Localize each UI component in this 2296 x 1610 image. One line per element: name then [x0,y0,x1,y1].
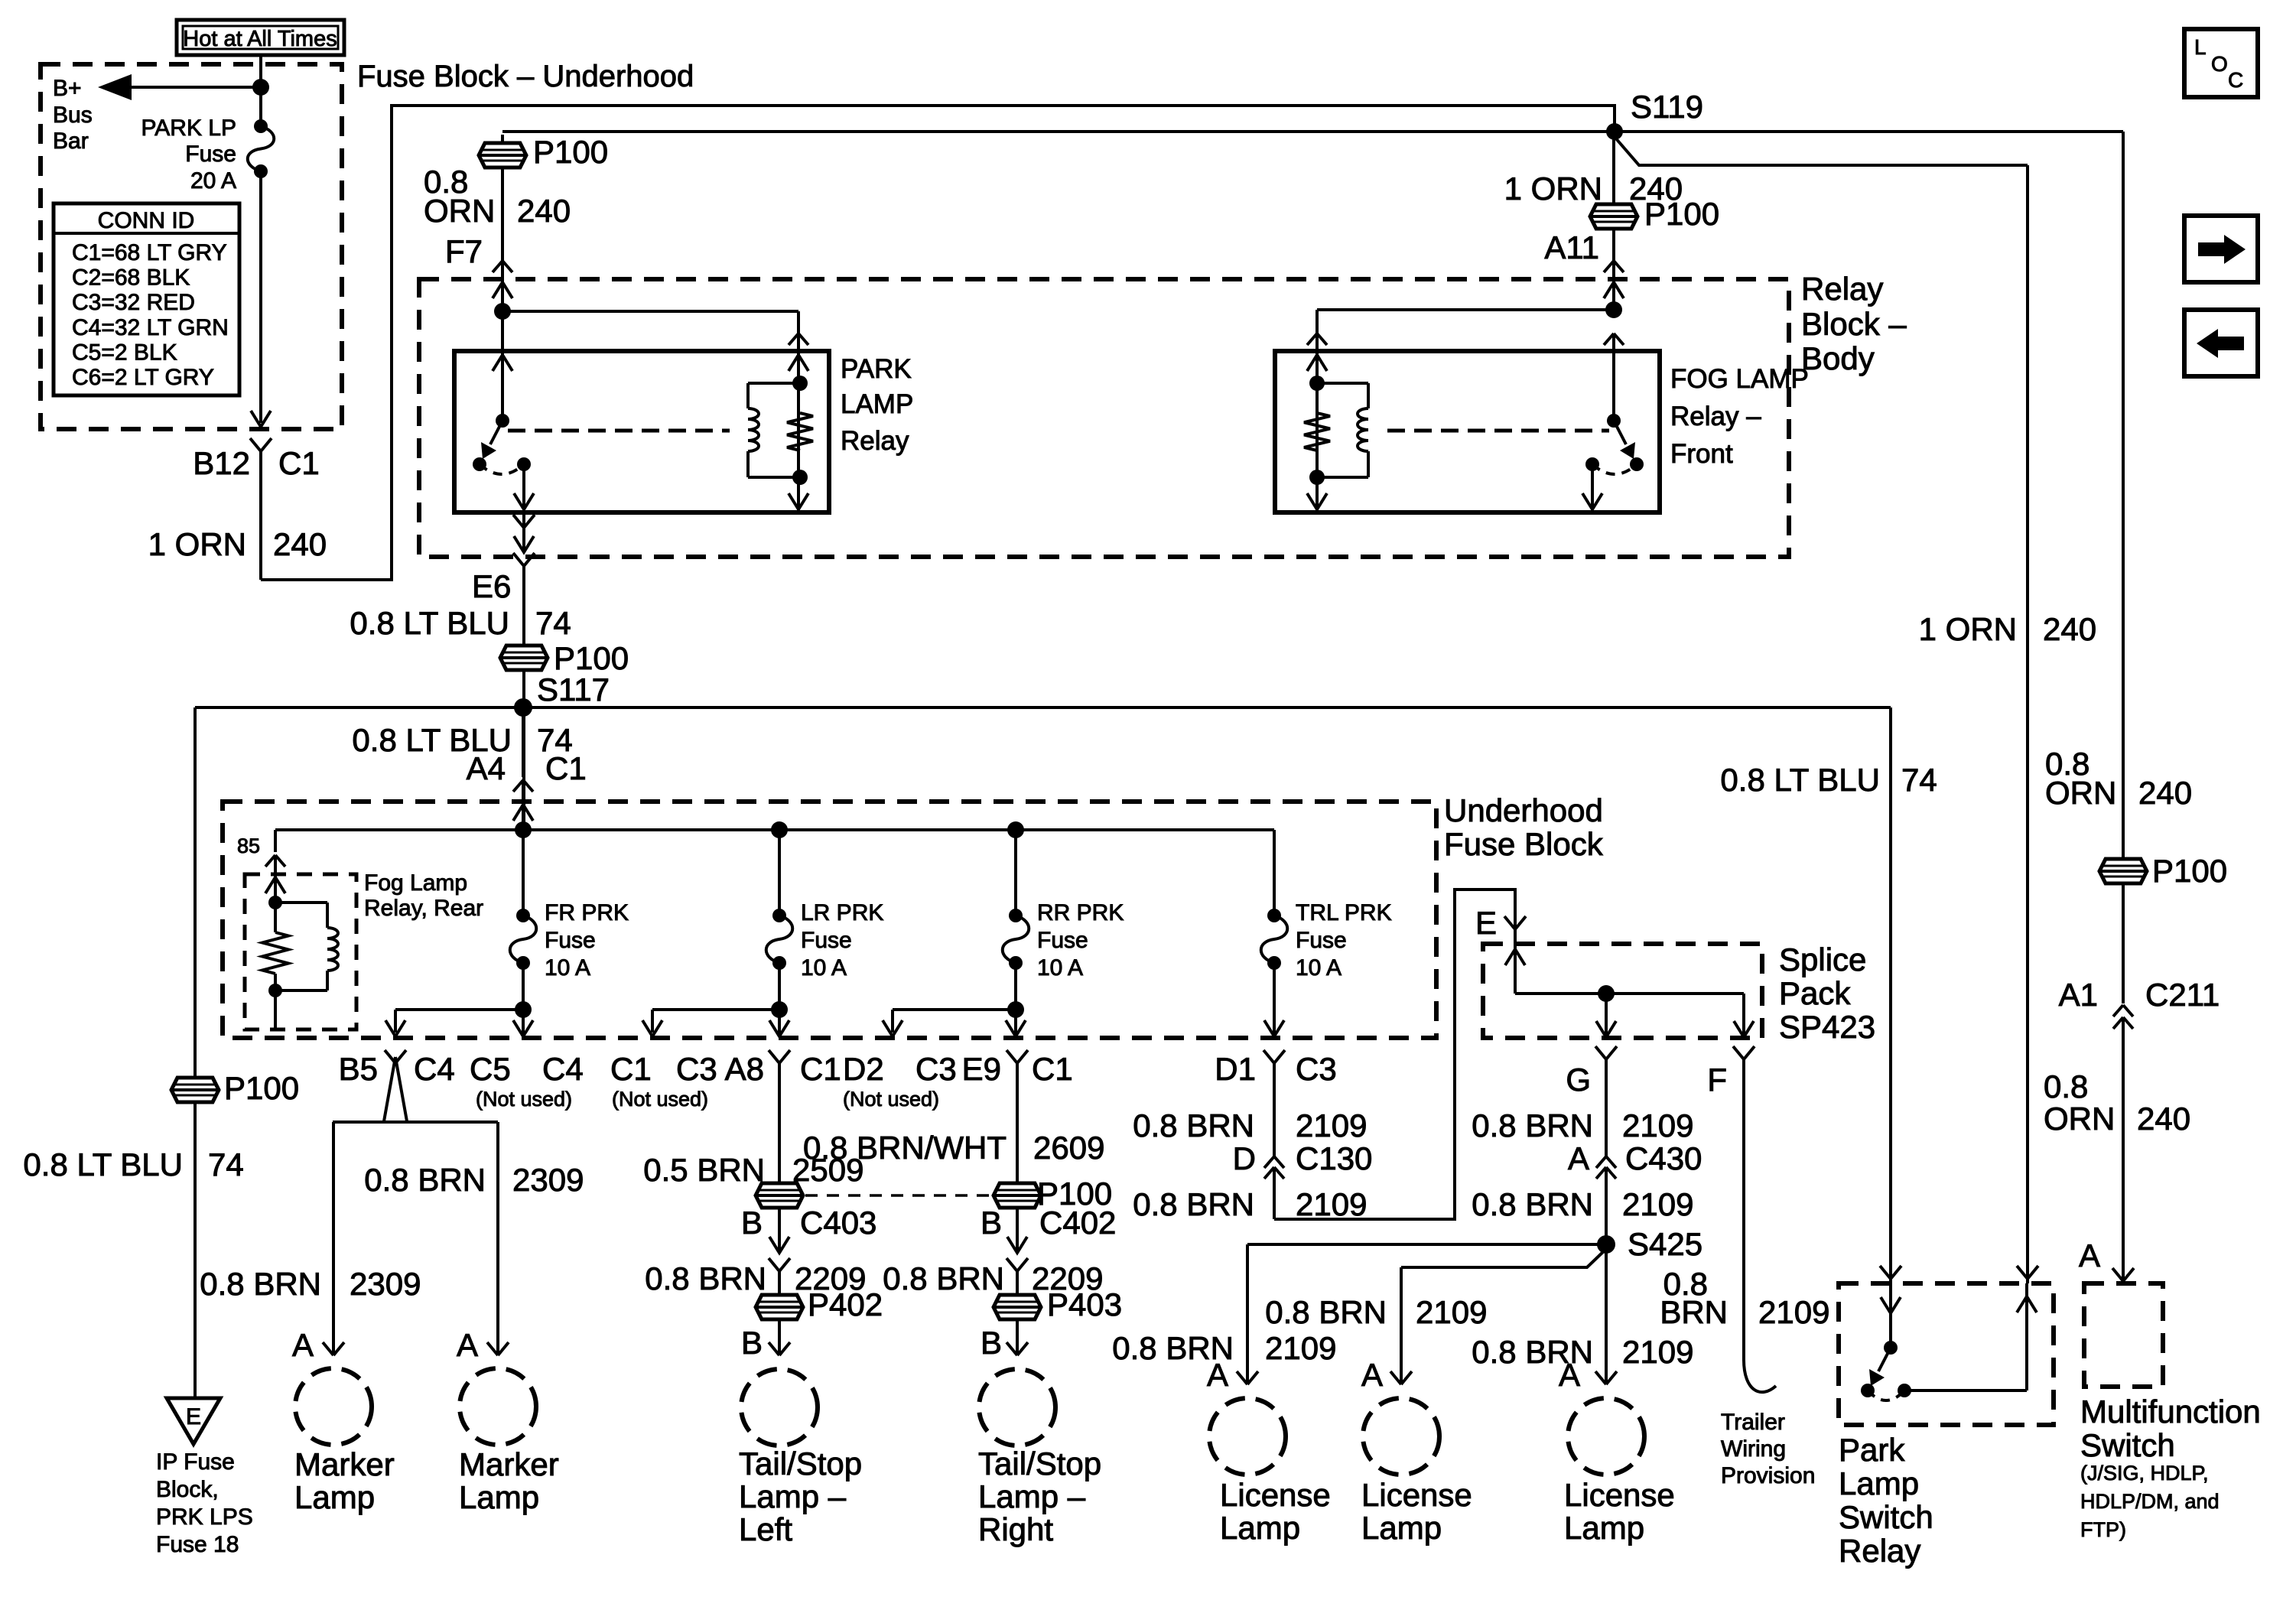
svg-text:0.8 LT BLU: 0.8 LT BLU [23,1147,183,1182]
svg-text:C4: C4 [414,1051,455,1087]
svg-text:C3=32 RED: C3=32 RED [72,290,195,315]
svg-text:PARK: PARK [841,354,912,384]
svg-text:O: O [2211,52,2228,76]
svg-text:A8: A8 [725,1051,764,1087]
svg-text:85: 85 [237,834,260,857]
svg-text:E9: E9 [962,1051,1001,1087]
svg-text:SP423: SP423 [1779,1009,1875,1045]
svg-text:License: License [1564,1477,1675,1513]
svg-text:Trailer: Trailer [1721,1410,1785,1435]
svg-text:B5: B5 [339,1051,378,1087]
svg-text:0.8 BRN/WHT: 0.8 BRN/WHT [803,1130,1007,1166]
svg-text:Relay: Relay [1839,1533,1920,1569]
svg-text:(Not used): (Not used) [843,1088,939,1111]
svg-text:Fuse 18: Fuse 18 [156,1532,239,1557]
svg-text:Wiring: Wiring [1721,1436,1786,1462]
svg-text:P100: P100 [2152,853,2227,889]
svg-text:Fuse: Fuse [801,928,852,953]
svg-text:Lamp: Lamp [1220,1510,1300,1546]
svg-text:C4: C4 [542,1051,584,1087]
svg-text:Lamp –: Lamp – [978,1478,1086,1514]
svg-text:240: 240 [2138,775,2192,811]
svg-text:2309: 2309 [350,1266,421,1302]
svg-text:1 ORN: 1 ORN [148,526,246,562]
svg-text:Pack: Pack [1779,975,1851,1011]
svg-text:C6=2 LT GRY: C6=2 LT GRY [72,365,214,390]
svg-text:240: 240 [517,193,571,229]
svg-text:Front: Front [1670,439,1733,469]
svg-text:FTP): FTP) [2080,1518,2126,1541]
svg-text:(J/SIG, HDLP,: (J/SIG, HDLP, [2080,1462,2209,1485]
svg-text:Underhood: Underhood [1444,792,1603,828]
svg-text:2109: 2109 [1416,1294,1487,1330]
svg-text:2309: 2309 [512,1162,584,1198]
svg-text:2109: 2109 [1296,1186,1367,1222]
svg-text:IP Fuse: IP Fuse [156,1449,235,1475]
svg-text:RR PRK: RR PRK [1037,900,1124,925]
svg-text:2609: 2609 [1033,1130,1104,1166]
svg-text:P100: P100 [224,1070,299,1106]
svg-text:P402: P402 [808,1286,883,1322]
svg-text:License: License [1361,1477,1472,1513]
svg-text:0.8 BRN: 0.8 BRN [883,1260,1004,1296]
svg-text:(Not used): (Not used) [476,1088,572,1111]
svg-text:Fog Lamp: Fog Lamp [364,870,467,896]
svg-text:Relay: Relay [1801,271,1883,307]
svg-text:2109: 2109 [1296,1107,1367,1143]
svg-text:0.8 BRN: 0.8 BRN [1472,1186,1593,1222]
svg-text:C2=68 BLK: C2=68 BLK [72,265,190,291]
svg-text:1 ORN: 1 ORN [1919,611,2017,647]
svg-text:B: B [981,1325,1002,1361]
svg-text:C: C [2228,68,2243,92]
svg-text:Relay, Rear: Relay, Rear [364,896,483,921]
svg-text:Block –: Block – [1801,306,1907,342]
svg-text:74: 74 [1901,762,1937,798]
svg-text:A11: A11 [1544,229,1599,265]
svg-text:0.8 BRN: 0.8 BRN [1472,1334,1593,1370]
svg-text:1 ORN: 1 ORN [1504,171,1602,207]
svg-text:C1: C1 [610,1051,652,1087]
svg-text:Tail/Stop: Tail/Stop [739,1446,862,1482]
svg-text:Tail/Stop: Tail/Stop [978,1446,1101,1482]
svg-text:A: A [457,1327,478,1363]
svg-text:C430: C430 [1625,1140,1702,1176]
svg-text:10 A: 10 A [1037,955,1083,981]
svg-text:TRL PRK: TRL PRK [1296,900,1392,925]
svg-text:LAMP: LAMP [841,389,913,419]
svg-text:Lamp: Lamp [1839,1465,1919,1501]
svg-text:0.8 BRN: 0.8 BRN [1112,1330,1234,1366]
svg-text:Multifunction: Multifunction [2080,1394,2261,1429]
svg-text:Fuse: Fuse [1037,928,1088,953]
svg-text:FOG LAMP: FOG LAMP [1670,364,1809,394]
svg-text:ORN: ORN [2044,1101,2115,1137]
svg-text:F: F [1707,1062,1727,1098]
svg-text:B12: B12 [193,445,250,481]
svg-text:L: L [2194,35,2207,59]
svg-text:Relay –: Relay – [1670,402,1761,431]
svg-text:C5: C5 [470,1051,511,1087]
svg-text:A1: A1 [2059,977,2098,1013]
svg-text:240: 240 [273,526,327,562]
svg-text:Fuse Block: Fuse Block [1444,826,1604,862]
svg-text:B: B [741,1325,763,1361]
svg-text:Fuse: Fuse [185,141,236,167]
svg-text:PARK LP: PARK LP [141,115,237,141]
svg-text:ORN: ORN [2045,775,2116,811]
svg-text:C1=68 LT GRY: C1=68 LT GRY [72,240,227,265]
svg-text:74: 74 [537,722,573,758]
svg-text:Relay: Relay [841,426,909,456]
svg-text:C403: C403 [800,1205,876,1241]
svg-text:0.8: 0.8 [2044,1068,2088,1104]
svg-text:2109: 2109 [1622,1334,1693,1370]
svg-text:10 A: 10 A [1296,955,1342,981]
svg-text:C3: C3 [676,1051,717,1087]
svg-text:C130: C130 [1296,1140,1372,1176]
svg-text:Marker: Marker [294,1446,395,1482]
svg-text:C5=2 BLK: C5=2 BLK [72,340,177,365]
svg-text:0.8 BRN: 0.8 BRN [364,1162,486,1198]
svg-text:C1: C1 [800,1051,841,1087]
svg-text:E: E [1475,905,1497,941]
svg-text:2109: 2109 [1265,1330,1336,1366]
svg-text:HDLP/DM, and: HDLP/DM, and [2080,1490,2220,1513]
svg-text:C402: C402 [1039,1205,1116,1241]
svg-text:FR PRK: FR PRK [545,900,629,925]
svg-text:Lamp –: Lamp – [739,1478,847,1514]
svg-text:B: B [981,1205,1002,1241]
svg-text:0.8 BRN: 0.8 BRN [645,1260,766,1296]
svg-text:B: B [741,1205,763,1241]
svg-text:G: G [1566,1062,1591,1098]
svg-text:Block,: Block, [156,1477,219,1502]
svg-text:Lamp: Lamp [459,1479,539,1515]
svg-text:S425: S425 [1628,1226,1702,1262]
svg-text:Splice: Splice [1779,942,1866,977]
svg-text:C3: C3 [915,1051,957,1087]
svg-text:2109: 2109 [1622,1107,1693,1143]
svg-text:Lamp: Lamp [1361,1510,1442,1546]
svg-text:Switch: Switch [1839,1499,1933,1535]
svg-text:B+: B+ [53,76,82,101]
svg-text:P100: P100 [533,134,608,170]
svg-text:License: License [1220,1477,1331,1513]
svg-text:Lamp: Lamp [294,1479,375,1515]
svg-text:0.8 LT BLU: 0.8 LT BLU [352,722,512,758]
svg-text:10 A: 10 A [801,955,847,981]
svg-text:Left: Left [739,1511,792,1547]
svg-text:S119: S119 [1631,89,1703,125]
svg-text:P403: P403 [1047,1286,1122,1322]
svg-text:74: 74 [208,1147,244,1182]
svg-text:240: 240 [2043,611,2096,647]
svg-text:ORN: ORN [424,193,495,229]
svg-text:0.8 BRN: 0.8 BRN [200,1266,321,1302]
svg-text:D: D [1233,1140,1256,1176]
svg-text:C4=32 LT GRN: C4=32 LT GRN [72,315,229,340]
svg-text:Body: Body [1801,340,1875,376]
svg-text:Switch: Switch [2080,1427,2175,1463]
svg-text:Fuse Block – Underhood: Fuse Block – Underhood [357,60,694,93]
svg-text:Marker: Marker [459,1446,559,1482]
svg-text:Hot at All Times: Hot at All Times [183,27,337,51]
svg-text:PRK LPS: PRK LPS [156,1504,253,1530]
svg-text:C211: C211 [2145,977,2220,1013]
svg-text:D2: D2 [843,1051,884,1087]
svg-text:0.5 BRN: 0.5 BRN [643,1152,765,1188]
svg-text:0.8 LT BLU: 0.8 LT BLU [1720,762,1880,798]
svg-text:Bus: Bus [53,102,93,128]
svg-text:0.8 LT BLU: 0.8 LT BLU [350,605,509,641]
svg-text:S117: S117 [537,672,610,707]
svg-text:C1: C1 [1032,1051,1073,1087]
svg-text:Provision: Provision [1721,1463,1815,1488]
svg-text:(Not used): (Not used) [612,1088,708,1111]
svg-text:Park: Park [1839,1432,1905,1468]
svg-text:2109: 2109 [1622,1186,1693,1222]
svg-text:0.8 BRN: 0.8 BRN [1133,1107,1254,1143]
svg-text:0.8 BRN: 0.8 BRN [1133,1186,1254,1222]
svg-text:2109: 2109 [1758,1294,1829,1330]
svg-text:240: 240 [2137,1101,2190,1137]
svg-text:0.8 BRN: 0.8 BRN [1472,1107,1593,1143]
svg-text:0.8 BRN: 0.8 BRN [1265,1294,1387,1330]
svg-text:Bar: Bar [53,128,89,154]
svg-text:CONN ID: CONN ID [98,208,195,233]
svg-text:Right: Right [978,1511,1053,1547]
svg-text:Fuse: Fuse [1296,928,1347,953]
svg-text:LR PRK: LR PRK [801,900,883,925]
svg-text:A: A [292,1327,314,1363]
svg-text:D1: D1 [1215,1051,1256,1087]
svg-text:A: A [1361,1357,1383,1393]
svg-text:Lamp: Lamp [1564,1510,1644,1546]
svg-text:C3: C3 [1296,1051,1337,1087]
svg-text:A: A [1568,1140,1589,1176]
svg-text:A: A [2079,1238,2100,1273]
svg-text:10 A: 10 A [545,955,590,981]
svg-text:E6: E6 [472,568,511,604]
svg-text:C1: C1 [278,445,320,481]
svg-text:BRN: BRN [1660,1294,1728,1330]
svg-text:P100: P100 [1644,196,1719,232]
svg-text:20 A: 20 A [190,168,236,194]
svg-text:P100: P100 [554,640,629,676]
svg-text:F7: F7 [445,233,483,269]
svg-text:74: 74 [535,605,571,641]
svg-text:E: E [186,1404,201,1429]
svg-text:Fuse: Fuse [545,928,596,953]
